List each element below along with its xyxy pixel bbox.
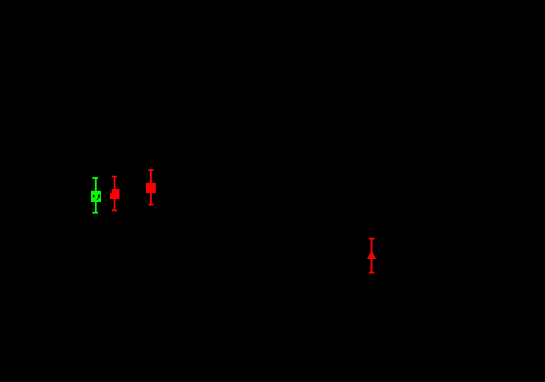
red data point R2: error bar [148,169,153,205]
red data point R3: error bar [369,238,374,274]
red data point R1: square marker with notched corner [110,189,120,199]
black overlap marks inside G1 marker [93,195,100,200]
green data point G1: error bar [92,177,98,214]
red data point R3: triangle marker [367,250,376,259]
green data point G1: square marker [91,191,101,202]
red data point R1: error bar [112,176,117,212]
red data point R2: square marker [146,183,156,193]
